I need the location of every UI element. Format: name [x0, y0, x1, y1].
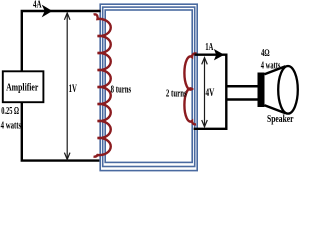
amplifier box U1: [3, 71, 44, 102]
voltage arrow 4V (double-headed): [202, 58, 208, 127]
speaker cone lines: [265, 66, 286, 113]
primary winding L1 (8 turns): [94, 14, 111, 156]
wire: secondary loop: [194, 55, 227, 129]
current arrowhead 1A on secondary top wire: [214, 49, 224, 60]
svg-text:4V: 4V: [206, 87, 215, 99]
wire: speaker feed bottom: [226, 98, 258, 101]
svg-text:2 turns: 2 turns: [166, 88, 187, 99]
svg-text:Speaker: Speaker: [267, 114, 294, 125]
speaker cone ellipse: [278, 66, 298, 114]
svg-text:4Ω: 4Ω: [261, 48, 270, 59]
svg-text:Amplifier: Amplifier: [6, 82, 39, 93]
wire: amplifier top to transformer: [22, 11, 101, 72]
svg-text:0.25 Ω: 0.25 Ω: [1, 106, 19, 117]
svg-text:8 turns: 8 turns: [111, 84, 132, 95]
voltage arrow 1V (double-headed): [64, 13, 70, 159]
wire: amplifier bottom to transformer (bottom return): [22, 102, 100, 161]
wire: speaker feed top: [226, 85, 258, 88]
svg-text:4 watts: 4 watts: [261, 61, 281, 72]
transformer core (nested blue rectangles): [100, 4, 197, 170]
current arrowhead 4A on top wire: [42, 5, 53, 18]
svg-text:4 watts: 4 watts: [1, 120, 22, 131]
svg-text:1V: 1V: [69, 81, 77, 95]
speaker LS1: driver bar: [258, 73, 265, 108]
svg-text:1A: 1A: [205, 42, 214, 53]
secondary winding L2 (2 turns): [184, 53, 196, 124]
svg-text:4A: 4A: [33, 0, 42, 10]
